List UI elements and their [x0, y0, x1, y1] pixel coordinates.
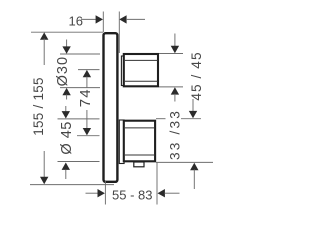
dimension 55-83: left extension line — [104, 181, 106, 205]
lower handle inner line bottom — [125, 154, 155, 156]
dimension 33/33: bottom arrow tail — [193, 170, 195, 190]
svg-text:155 / 155: 155 / 155 — [31, 77, 46, 136]
dimension 16: right arrowhead — [119, 15, 126, 23]
dimension O45: bottom arrowhead — [62, 163, 70, 170]
upper handle body — [124, 54, 158, 86]
dimension 16: right arrow tail — [127, 18, 145, 20]
dimension 16: left arrowhead — [96, 15, 103, 23]
dimension 74: top arrowhead — [83, 70, 91, 77]
dimension 74: top extension line — [78, 69, 100, 71]
dimension 55-83: left arrow tail — [86, 192, 100, 194]
dimension 33/33: top extension line — [156, 118, 166, 120]
dimension 33/33: top arrow tail — [192, 99, 194, 112]
dimension 45/45: top extension line — [159, 53, 183, 55]
svg-text:Ø30: Ø30 — [55, 56, 71, 86]
dimension O45: bottom arrow tail — [65, 170, 67, 179]
upper handle collar — [121, 56, 124, 86]
dimension O30: top arrow tail — [66, 40, 68, 49]
dimension 155/155: line upper segment — [43, 39, 45, 66]
dimension 45/45: bottom extension line — [159, 86, 183, 88]
dimension 155/155: line lower segment — [43, 151, 45, 178]
dimension 33/33: top extension line right part — [181, 118, 201, 120]
svg-text:45 / 45: 45 / 45 — [189, 51, 204, 100]
dimension 33/33: bottom arrowhead — [190, 163, 198, 170]
dimension 74: line upper segment — [86, 77, 88, 89]
dimension 55-83: left arrowhead — [98, 189, 105, 197]
dimension 45/45: bottom arrowhead — [171, 87, 179, 94]
dimension O45: top arrow tail — [65, 106, 67, 112]
dimension 55-83: right extension line — [156, 163, 158, 205]
dimension 74: line lower segment — [86, 110, 88, 129]
dimension 55-83: right arrowhead — [158, 189, 165, 197]
dimension 155/155: bottom arrowhead — [40, 177, 48, 184]
dimension O30: bottom arrow tail — [66, 95, 68, 100]
dimension 16: left arrow tail — [81, 18, 98, 20]
dimension 33/33: top arrowhead — [189, 111, 197, 118]
dimension O45: bottom extension line — [58, 161, 100, 163]
svg-text:74: 74 — [77, 88, 94, 107]
lower handle body — [124, 121, 155, 162]
dimension 16: left extension line — [102, 12, 104, 33]
upper handle inner line top — [125, 59, 158, 61]
dimension O30: top extension line — [60, 53, 100, 55]
dimension 45/45: top arrowhead — [171, 46, 179, 53]
dimension O45: top arrowhead — [62, 111, 70, 118]
dimension O45: top extension line — [58, 118, 100, 120]
lower handle collar — [119, 120, 124, 164]
svg-text:33 /33: 33 /33 — [167, 109, 182, 160]
dimension 155/155: top extension line — [31, 31, 103, 33]
dimension O30: bottom extension line — [60, 87, 100, 89]
dimension 155/155: bottom extension line — [30, 184, 114, 186]
svg-text:55 - 83: 55 - 83 — [112, 188, 152, 203]
dimension 45/45: top arrow tail — [174, 34, 176, 48]
lower handle inner line top — [125, 127, 155, 129]
dimension 33/33: bottom extension line — [156, 161, 213, 163]
dimension 45/45: bottom arrow tail — [174, 94, 176, 102]
grip tab under lower handle — [134, 162, 144, 167]
dimension 55-83: right arrow tail — [165, 192, 180, 194]
dimension 155/155: top arrowhead — [40, 32, 48, 39]
svg-text:Ø 45: Ø 45 — [59, 121, 75, 154]
dimension 16: right extension line — [118, 12, 120, 54]
dimension 74: bottom extension line — [77, 135, 100, 137]
dimension 74: bottom arrowhead — [83, 128, 91, 135]
dimension O30: bottom arrowhead — [62, 88, 70, 95]
wall plate (escutcheon, side view) — [104, 33, 118, 182]
dimension O30: top arrowhead — [62, 46, 70, 53]
upper handle inner line bottom — [125, 80, 158, 82]
svg-text:16: 16 — [69, 14, 83, 29]
